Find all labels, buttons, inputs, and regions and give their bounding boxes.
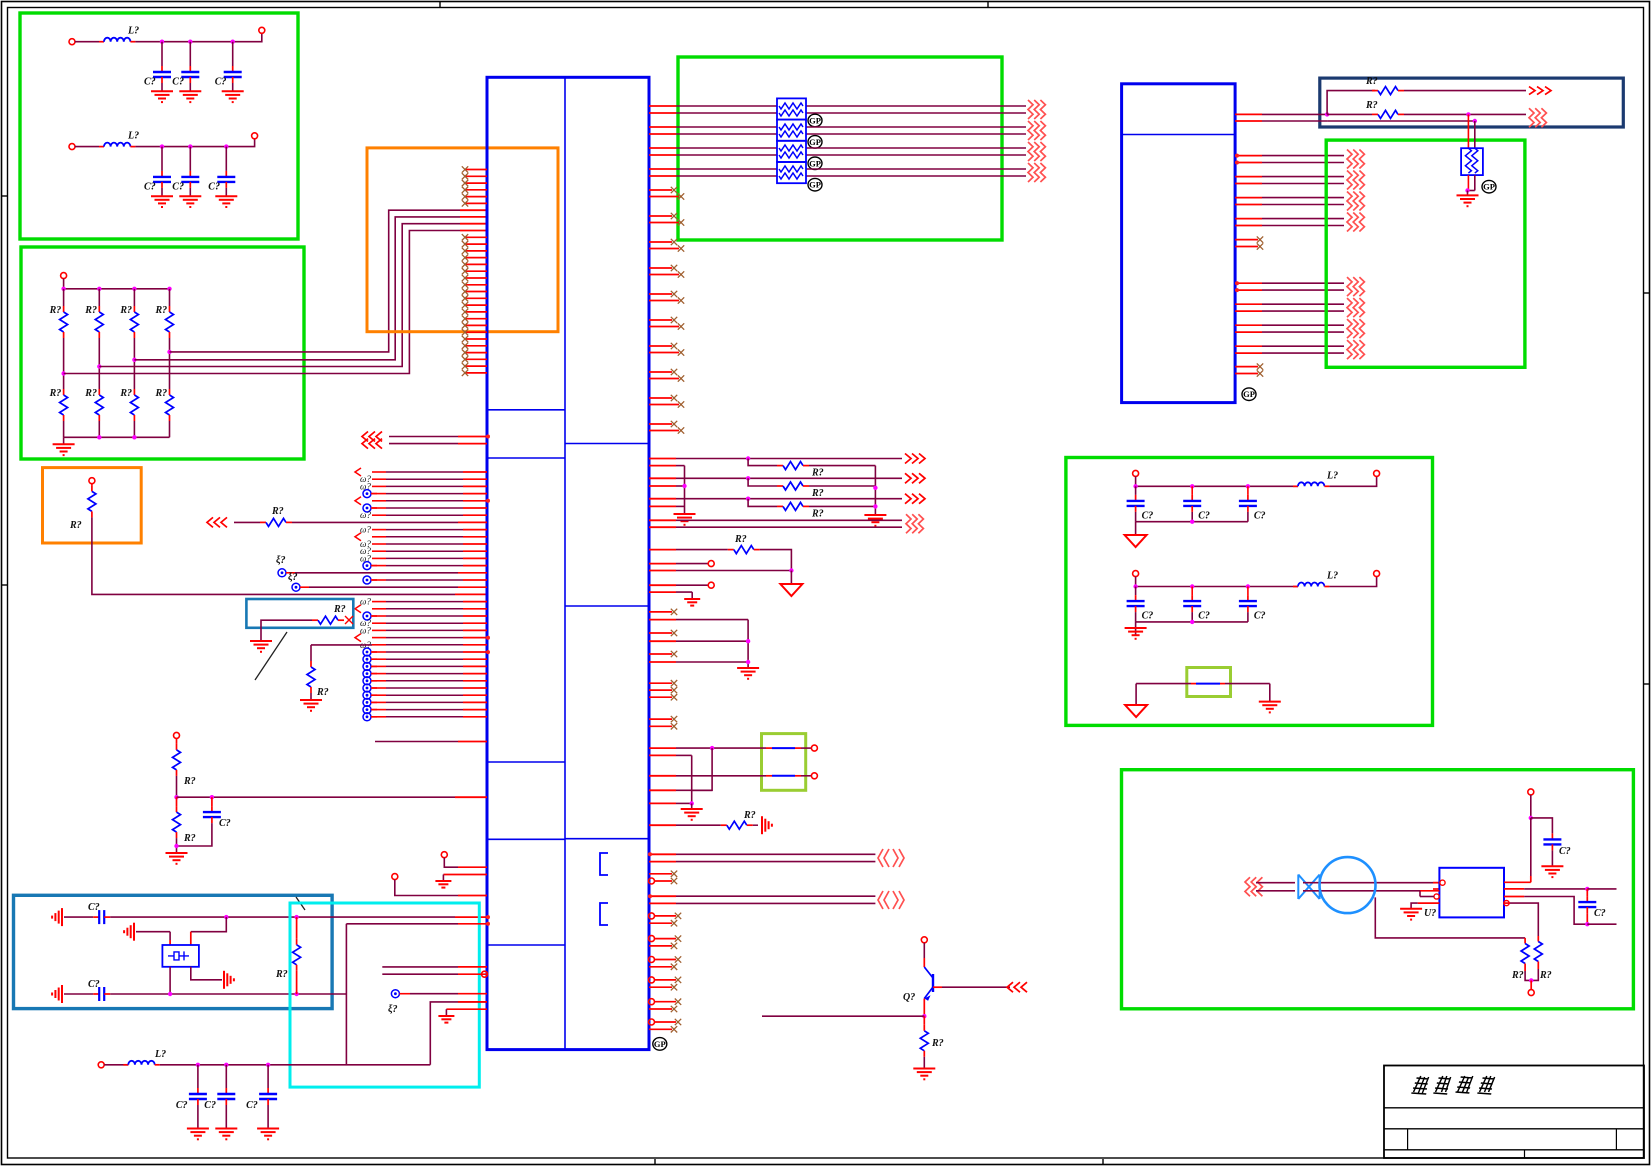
- resistor Rt1: [63, 306, 65, 312]
- memory IC U2 GP label: [1242, 388, 1256, 401]
- junction mid R3: [132, 358, 136, 362]
- navy junction 2: [1466, 112, 1470, 116]
- ground tie right wire: [1269, 684, 1271, 702]
- IC right no-connect pins lower: [649, 913, 682, 1033]
- bottom filter cap C3 ground wire: [267, 1105, 269, 1129]
- line interface group box: [1122, 770, 1634, 1009]
- divider junction 2: [210, 795, 214, 799]
- crystal left pin wire: [169, 932, 171, 940]
- svg-text:R?: R?: [119, 388, 132, 399]
- pulldown ground: [300, 699, 322, 701]
- filter C input terminal: [1133, 470, 1139, 476]
- crystal bottom wire: [110, 993, 346, 995]
- ground tie earth ground: [1259, 701, 1281, 703]
- ground tie triangle ground: [1125, 705, 1147, 717]
- filter D ground: [1125, 627, 1147, 629]
- svg-text:GP: GP: [809, 116, 821, 126]
- filter C cap 1: [1135, 486, 1137, 495]
- wire R1 bottom: [63, 421, 65, 437]
- divider junction 3: [174, 844, 178, 848]
- U2 wire to navy box: [1262, 113, 1327, 115]
- bottom filter cap C2 ground wire: [225, 1105, 227, 1129]
- jumper wire row 748: [649, 747, 676, 749]
- filter D cap 3: [1247, 587, 1249, 596]
- crystal cap CX2: [93, 993, 99, 995]
- svg-text:R?: R?: [931, 1038, 944, 1049]
- svg-text:R?: R?: [155, 388, 168, 399]
- bottom filter input terminal: [98, 1062, 104, 1068]
- navy wire R17 to offpage: [1404, 90, 1526, 92]
- wire cap A3: [232, 42, 234, 66]
- offpage chevron row 522: [207, 517, 213, 527]
- offpage chevrons 155.6: [1347, 150, 1352, 169]
- filter C output wire: [1329, 476, 1376, 486]
- crystal bottom right wire: [191, 967, 222, 980]
- grounded rows 619-662: [649, 619, 676, 621]
- array supply terminal: [61, 273, 67, 279]
- wire pair row 854 to offpage: [649, 853, 676, 855]
- wire R1 mid: [63, 338, 65, 389]
- navy resistor R18: [1327, 113, 1372, 115]
- pack wires 3: [649, 147, 676, 149]
- offpage chevrons 325.2: [1347, 319, 1352, 338]
- connector stub row 572: [278, 569, 286, 577]
- divider junction: [174, 795, 178, 799]
- transistor Q1: [932, 974, 934, 992]
- svg-text:R?: R?: [183, 776, 196, 787]
- memory IC U2 no-connect pins: [1235, 236, 1263, 376]
- svg-text:L?: L?: [127, 131, 139, 142]
- jumper J2: [766, 775, 772, 777]
- svg-text:GP: GP: [1483, 182, 1495, 192]
- branch resistor R13: [748, 499, 777, 507]
- supply junction: [1529, 816, 1533, 820]
- R15 ground arm: [753, 824, 758, 826]
- filter D junction 2: [1190, 584, 1194, 588]
- svg-text:C?: C?: [1254, 611, 1266, 622]
- crystal annotation slash: [296, 897, 305, 910]
- termination group box blue: [246, 599, 353, 628]
- svg-text:ω?: ω?: [360, 525, 371, 535]
- termination ground: [250, 640, 272, 642]
- resistor pack RP1 GP label: [808, 114, 822, 127]
- divider output wire to IC: [177, 796, 456, 798]
- bias supply terminal: [1528, 990, 1534, 996]
- line wire pair: [1256, 882, 1295, 884]
- filter C output terminal: [1374, 470, 1380, 476]
- filter C junction 1: [1133, 484, 1137, 488]
- svg-text:C?: C?: [144, 182, 156, 193]
- svg-text:L?: L?: [154, 1049, 166, 1060]
- svg-text:R?: R?: [333, 604, 346, 615]
- svg-text:R?: R?: [734, 534, 747, 545]
- U3 ground pin wire: [1418, 902, 1440, 904]
- output terminal B: [252, 133, 258, 139]
- IC U1 left section dividers: [487, 409, 565, 411]
- power input terminal A: [69, 39, 75, 45]
- resistor Rb1: [63, 389, 65, 395]
- junction top R1: [61, 287, 65, 291]
- svg-text:GP: GP: [1243, 389, 1255, 399]
- emitter resistor ground wire: [923, 1057, 925, 1069]
- array ground wire: [63, 437, 65, 444]
- svg-text:GP: GP: [809, 180, 821, 190]
- resistor pack RP4: [777, 162, 806, 183]
- filter D cap 2: [1191, 587, 1193, 596]
- memory IC U2 pin dots: [1235, 154, 1239, 158]
- branch resistor R12: [748, 478, 777, 486]
- bus wire net4: [170, 210, 461, 352]
- svg-text:C?: C?: [219, 818, 231, 829]
- svg-text:L?: L?: [127, 26, 139, 37]
- stub row 506.4: [649, 505, 676, 507]
- transistor supply terminal: [921, 937, 927, 943]
- pull resistor array group box: [21, 247, 304, 459]
- bottom filter cap C1: [197, 1088, 199, 1094]
- wire gnd A2: [189, 83, 191, 91]
- IC U1 bracket symbol 1: [600, 853, 608, 875]
- connector stub row 587: [292, 583, 300, 591]
- common vertical to ground A: [684, 466, 686, 514]
- power wire row 1002 to filter: [430, 1002, 487, 1065]
- emitter net wire: [762, 1015, 924, 1017]
- resistor Rt2: [98, 306, 100, 312]
- svg-text:C?: C?: [1559, 846, 1571, 857]
- inductor LB: [99, 146, 104, 148]
- resistor Rb3: [133, 389, 135, 395]
- junction top R3: [132, 287, 136, 291]
- crystal Y1: [162, 945, 199, 967]
- svg-text:ξ?: ξ?: [288, 572, 298, 583]
- filter D bus wire: [1136, 586, 1298, 588]
- bias terminal wire: [1530, 980, 1532, 989]
- junction row 458.5: [746, 456, 750, 460]
- jumper wire row 776: [649, 775, 676, 777]
- resistor Rt4: [169, 306, 171, 312]
- svg-text:C?: C?: [1254, 510, 1266, 521]
- svg-text:GP: GP: [809, 137, 821, 147]
- divider cap C10: [211, 797, 213, 806]
- memory IC U2 connected pins: [1235, 114, 1262, 353]
- bias resistor R19: [1524, 938, 1526, 944]
- ground B: [864, 514, 886, 516]
- junction mid R2: [97, 364, 101, 368]
- transistor ground: [913, 1068, 935, 1070]
- svg-text:R?: R?: [811, 488, 824, 499]
- navy offpage chevrons 2: [1529, 108, 1534, 127]
- offpage chevrons row 900: [878, 891, 883, 909]
- resistor pack RP4 GP label: [808, 178, 822, 191]
- bus wire net1: [64, 231, 460, 374]
- decoupling branch wire: [1531, 818, 1553, 834]
- svg-text:R?: R?: [69, 520, 82, 531]
- svg-text:C?: C?: [172, 182, 184, 193]
- offpage chevrons 197.6: [1347, 192, 1352, 211]
- svg-text:R?: R?: [811, 468, 824, 479]
- no-connect circle pins 874: [649, 871, 678, 885]
- junction mid R1: [61, 371, 65, 375]
- offpage chevrons pack 1: [1028, 100, 1033, 119]
- orange highlight box over IC: [367, 148, 558, 332]
- line feedback wire from core: [1375, 897, 1525, 938]
- svg-text:R?: R?: [271, 506, 284, 517]
- jumper ground: [691, 803, 693, 809]
- svg-text:C?: C?: [1198, 510, 1210, 521]
- cyan box wire row 966: [382, 966, 458, 968]
- power input terminal B: [69, 144, 75, 150]
- jumper J1: [766, 747, 772, 749]
- svg-text:Q?: Q?: [903, 992, 915, 1003]
- termination resistor wire: [261, 620, 312, 641]
- wire R4 top: [169, 289, 171, 306]
- supply terminal row 895: [392, 874, 398, 880]
- wire R4 mid: [169, 338, 171, 389]
- bottom filter inductor L3: [123, 1064, 128, 1066]
- pull-up resistor group box: [43, 468, 142, 543]
- wire row 755: [649, 754, 676, 756]
- wire row 803: [649, 802, 676, 804]
- ground B1: [151, 195, 173, 197]
- capacitor CA3: [232, 66, 234, 72]
- navy junction 3: [1473, 119, 1477, 123]
- wire gnd A3: [232, 83, 234, 91]
- resistor pack RP3: [777, 141, 806, 162]
- offpage chevrons pack 4: [1028, 163, 1033, 182]
- pack RP5 GP label: [1482, 180, 1496, 193]
- svg-text:C?: C?: [172, 77, 184, 88]
- filter C cap bottom bus: [1136, 521, 1248, 523]
- offpage chevrons 346.2: [1347, 340, 1352, 359]
- svg-text:R?: R?: [49, 388, 62, 399]
- bottom filter ground 2: [215, 1128, 237, 1130]
- bottom filter junction 3: [266, 1063, 270, 1067]
- pack RP5 junction: [1465, 188, 1469, 192]
- filter C cap 3: [1247, 486, 1249, 495]
- offpage chevrons pack 2: [1028, 121, 1033, 140]
- junction row 478.3: [746, 476, 750, 480]
- crystal bottom junction 1: [168, 992, 172, 996]
- wire pair row 896 to offpage: [649, 895, 676, 897]
- resistor Rt3: [133, 306, 135, 312]
- navy resistor R17: [1372, 90, 1378, 92]
- pack RP5 ground: [1467, 191, 1469, 196]
- junction top R4: [167, 287, 171, 291]
- offpage chevrons 520: [906, 514, 911, 533]
- wire row 570: [649, 570, 676, 572]
- U3 ground: [1400, 908, 1422, 910]
- IC U1 internal divider vertical: [564, 77, 566, 1049]
- pack wires 4: [649, 168, 676, 170]
- title text Wistron: [1411, 1076, 1495, 1094]
- offpage chevrons 283.2: [1347, 277, 1352, 296]
- no-connect pins 719-726: [649, 716, 677, 730]
- svg-text:C?: C?: [1142, 611, 1154, 622]
- transistor emitter wire: [923, 999, 925, 1017]
- junction row 498.7: [746, 497, 750, 501]
- bias junction: [1529, 978, 1533, 982]
- line isolation core T1: [1320, 857, 1376, 913]
- bottom filter cap C1 wire: [197, 1065, 199, 1088]
- wire cap B2: [189, 147, 191, 171]
- crystal ground arm 2: [133, 923, 135, 941]
- wire R1 top: [63, 289, 65, 306]
- ground B2: [179, 195, 201, 197]
- bottom filter junction 2: [224, 1063, 228, 1067]
- ground tie group box: [1187, 668, 1231, 697]
- decoupling ground wire: [1551, 850, 1553, 866]
- clock wire pair to IC: [346, 923, 458, 925]
- filter D cap bottom bus: [1136, 621, 1248, 623]
- inductor LA: [99, 41, 104, 43]
- bottom filter ground 3: [257, 1128, 279, 1130]
- IC U1 GP label: [653, 1038, 667, 1051]
- svg-text:R?: R?: [316, 687, 329, 698]
- signal wire row 458.5: [649, 458, 676, 460]
- triangle ground 570: [790, 571, 792, 585]
- jumper ground path: [692, 748, 712, 790]
- termination x mark: [345, 616, 353, 624]
- cyan box connector row 994: [391, 990, 399, 998]
- offpage chevrons row 858 bidirectional: [878, 849, 883, 867]
- bottom filter cap C3: [267, 1088, 269, 1094]
- svg-text:R?: R?: [84, 388, 97, 399]
- junction bottom 3: [132, 435, 136, 439]
- jumper group box: [762, 734, 806, 791]
- filter D ground wire: [1135, 622, 1137, 635]
- svg-text:R?: R?: [275, 969, 288, 980]
- ground tie left wire: [1135, 684, 1137, 705]
- junction row 748: [710, 746, 714, 750]
- vertical ground wire 748: [747, 620, 749, 668]
- capacitor CB1: [161, 171, 163, 177]
- wire cap B3: [225, 147, 227, 171]
- svg-text:U?: U?: [1424, 908, 1436, 919]
- offpage chevron row 478.3: [905, 473, 911, 483]
- bottom filter cap C2 wire: [225, 1065, 227, 1088]
- resistor pack RP2: [777, 120, 806, 141]
- transistor collector wire: [923, 943, 925, 958]
- branch resistor R11: [748, 459, 777, 466]
- signal wire row 498.7: [649, 498, 676, 500]
- wire R6 to IC: [292, 521, 458, 523]
- bottom filter cap C3 wire: [267, 1065, 269, 1088]
- bias bottom tie wire: [1525, 969, 1538, 980]
- transistor base wire: [933, 986, 942, 988]
- memory IC U2 body: [1122, 84, 1236, 403]
- decoupling cap C15: [1551, 833, 1553, 839]
- crystal right pin wire: [191, 917, 227, 932]
- filter C ground wire: [1135, 522, 1137, 535]
- series resistor R6: [260, 521, 266, 523]
- output junction 924: [1585, 922, 1589, 926]
- offpage chevrons 176.6: [1347, 171, 1352, 190]
- svg-text:C?: C?: [144, 77, 156, 88]
- svg-text:R?: R?: [119, 305, 132, 316]
- bottom filter bus wire: [160, 1064, 431, 1066]
- divider supply terminal: [174, 732, 180, 738]
- divider ground: [166, 852, 188, 854]
- svg-text:ξ?: ξ?: [276, 555, 286, 566]
- svg-text:R?: R?: [743, 810, 756, 821]
- no-connect pins 612: [649, 609, 677, 658]
- resistor Rb2: [98, 389, 100, 395]
- wire R4 bottom: [169, 421, 171, 437]
- filter C cap 2: [1191, 486, 1193, 495]
- wire gnd A1: [161, 83, 163, 91]
- divider bottom wires: [177, 823, 212, 846]
- filter D output wire: [1329, 577, 1376, 587]
- filter C junction 2: [1190, 484, 1194, 488]
- line bowtie filter FL1: [1298, 875, 1319, 900]
- series resistor R14 row 549: [649, 549, 676, 551]
- svg-text:C?: C?: [1594, 908, 1606, 919]
- U2 signal wires to offpage: [1262, 156, 1344, 354]
- ground row 592: [649, 591, 676, 593]
- video filter group box: [1066, 458, 1433, 726]
- bottom filter cap C2: [225, 1088, 227, 1094]
- junction A3: [231, 40, 235, 44]
- supply terminal row 867: [441, 852, 447, 858]
- filter D cap 1: [1135, 587, 1137, 596]
- wire cap A2: [189, 42, 191, 66]
- no-connect pins 683-697: [649, 680, 677, 700]
- clock group box cyan: [290, 903, 479, 1087]
- supply terminal top: [1528, 789, 1534, 795]
- junction row 570: [789, 568, 793, 572]
- resistor pack RP3 GP label: [808, 157, 822, 170]
- junction bottom 2: [97, 435, 101, 439]
- filter D output terminal: [1374, 571, 1380, 577]
- pack riser wires: [1467, 114, 1469, 148]
- svg-text:L?: L?: [1326, 571, 1338, 582]
- emitter resistor R16: [923, 1016, 925, 1025]
- ground A: [674, 513, 696, 515]
- IC right no-connect pins upper: [649, 187, 684, 434]
- resistor pack RP5: [1461, 148, 1483, 175]
- ground B3: [215, 195, 237, 197]
- power filter group box: [20, 13, 298, 239]
- svg-text:GP: GP: [809, 158, 821, 168]
- svg-text:R?: R?: [49, 305, 62, 316]
- ground C: [737, 667, 759, 669]
- wire R14 down: [760, 550, 792, 571]
- stub row 465.6: [649, 465, 676, 467]
- navy offpage chevron 1: [1529, 87, 1535, 95]
- junction top R2: [97, 287, 101, 291]
- svg-text:ω?: ω?: [360, 597, 371, 607]
- supply wire down: [1530, 795, 1532, 818]
- junction mid R4: [167, 350, 171, 354]
- crystal bottom left wire: [169, 967, 171, 994]
- wire pair to offpage 520: [649, 519, 676, 521]
- border zone tick marks: [987, 2, 989, 8]
- crystal top junction 2: [294, 915, 298, 919]
- bottom filter cap C1 ground wire: [197, 1105, 199, 1129]
- crystal top junction 1: [224, 915, 228, 919]
- array ground: [53, 443, 75, 445]
- U3 center tap wire: [1504, 902, 1510, 904]
- svg-text:C?: C?: [1198, 611, 1210, 622]
- pulldown resistor R8: [310, 661, 312, 667]
- bottom filter ground 1: [187, 1128, 209, 1130]
- svg-text:C?: C?: [1142, 510, 1154, 521]
- navy wire R18 to offpage: [1404, 113, 1526, 115]
- transformer U3 body: [1439, 868, 1504, 918]
- offpage chevrons rows 436/443: [362, 432, 368, 442]
- crystal bottom right ground: [223, 971, 225, 989]
- lone wire row 741: [375, 741, 458, 743]
- bus wire net2: [99, 224, 460, 367]
